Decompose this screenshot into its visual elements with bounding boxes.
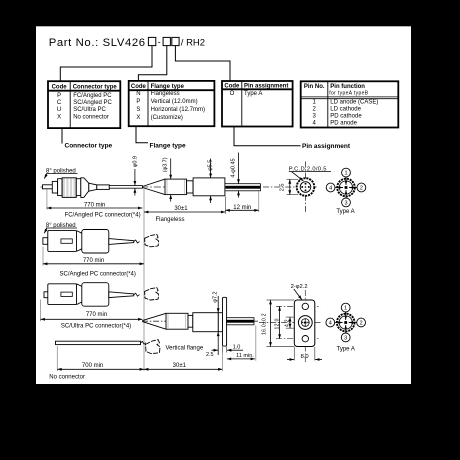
svg-text:2: 2 (360, 186, 363, 192)
svg-text:1: 1 (344, 306, 347, 312)
svg-text:30±1: 30±1 (173, 363, 187, 369)
svg-text:2: 2 (360, 321, 363, 327)
svg-text:30±1: 30±1 (174, 206, 188, 212)
svg-text:11 min.: 11 min. (236, 353, 254, 359)
svg-text:Flangeless: Flangeless (156, 217, 185, 223)
svg-text:Pin assignment: Pin assignment (302, 143, 351, 150)
svg-text:Vertical (12.0mm): Vertical (12.0mm) (151, 99, 198, 105)
svg-text:Horizontal (12.7mm): Horizontal (12.7mm) (151, 107, 205, 113)
svg-text:X: X (136, 115, 140, 121)
svg-text:PD anode: PD anode (330, 121, 357, 127)
svg-text:No connector: No connector (49, 374, 85, 380)
svg-text:φ7.2: φ7.2 (213, 291, 219, 302)
svg-text:770 min: 770 min (83, 258, 104, 264)
svg-text:S: S (136, 107, 140, 113)
svg-text:1: 1 (344, 171, 347, 177)
svg-text:-: - (158, 37, 161, 47)
svg-text:LD cathode: LD cathode (330, 106, 361, 112)
svg-text:Part No.: SLV426: Part No.: SLV426 (49, 37, 146, 49)
svg-text:Pin No.: Pin No. (304, 84, 325, 90)
svg-text:FC/Angled PC: FC/Angled PC (73, 93, 112, 99)
svg-text:3: 3 (344, 336, 347, 342)
svg-text:/ RH2: / RH2 (181, 37, 205, 48)
svg-text:U: U (57, 107, 61, 113)
svg-text:SC/Ultra PC: SC/Ultra PC (73, 107, 106, 113)
svg-text:2-φ2.2: 2-φ2.2 (291, 284, 308, 290)
svg-text:P: P (136, 99, 140, 105)
svg-text:No connector: No connector (73, 114, 109, 120)
svg-text:Flange type: Flange type (151, 84, 185, 90)
svg-text:Type A: Type A (337, 347, 355, 353)
svg-text:Code: Code (224, 84, 240, 90)
svg-text:8.0: 8.0 (301, 354, 309, 360)
svg-text:Flange type: Flange type (150, 142, 187, 149)
svg-text:Vertical flange: Vertical flange (166, 346, 204, 352)
svg-text:Code: Code (131, 84, 147, 90)
svg-text:P: P (57, 93, 61, 99)
svg-text:4-φ0.45: 4-φ0.45 (230, 158, 236, 177)
svg-text:(φ3.7): (φ3.7) (162, 157, 168, 172)
svg-text:FC/Angled PC connector(*4): FC/Angled PC connector(*4) (65, 212, 141, 218)
svg-text:770 min: 770 min (86, 312, 107, 318)
svg-text:Pin function: Pin function (330, 84, 365, 90)
svg-text:Pin assignment: Pin assignment (244, 84, 288, 90)
svg-text:C: C (57, 100, 62, 106)
svg-text:Connector type: Connector type (73, 84, 118, 90)
svg-text:SC/Angled PC: SC/Angled PC (73, 100, 112, 106)
svg-text:2.5: 2.5 (279, 184, 285, 192)
svg-text:4: 4 (329, 186, 332, 192)
svg-text:Type A: Type A (336, 209, 354, 215)
svg-text:4: 4 (329, 321, 332, 327)
svg-text:700 min: 700 min (82, 363, 103, 369)
svg-text:16.0±0.2: 16.0±0.2 (262, 313, 268, 335)
svg-text:SC/Angled PC connector(*4): SC/Angled PC connector(*4) (60, 272, 136, 278)
svg-text:4.2: 4.2 (285, 319, 291, 327)
svg-text:X: X (57, 114, 61, 120)
svg-text:Type A: Type A (244, 91, 262, 97)
svg-text:3: 3 (344, 201, 347, 207)
svg-text:PD cathode: PD cathode (330, 113, 362, 119)
svg-text:(Customize): (Customize) (151, 115, 183, 121)
svg-text:2.5: 2.5 (206, 352, 214, 358)
svg-text:N: N (136, 91, 140, 97)
svg-text:1.0: 1.0 (233, 344, 241, 350)
svg-text:Flangeless: Flangeless (151, 91, 180, 97)
svg-text:770 min: 770 min (84, 202, 105, 208)
svg-text:for typeA typeB: for typeA typeB (329, 90, 368, 96)
svg-text:12 min: 12 min (233, 205, 251, 211)
svg-text:Code: Code (52, 84, 68, 90)
svg-text:SC/Ultra PC connector(*4): SC/Ultra PC connector(*4) (61, 323, 131, 329)
svg-text:Connector type: Connector type (65, 142, 113, 149)
svg-text:O: O (230, 91, 235, 97)
svg-text:12.0: 12.0 (274, 318, 280, 329)
svg-text:LD anode (CASE): LD anode (CASE) (330, 99, 378, 105)
svg-text:φ0.9: φ0.9 (132, 156, 138, 167)
